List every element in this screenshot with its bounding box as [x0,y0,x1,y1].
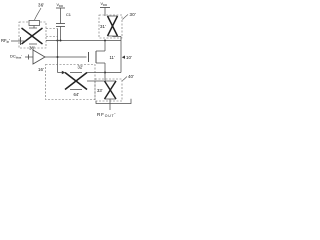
svg-text:40': 40' [128,74,134,79]
svg-text:32': 32' [78,65,84,70]
svg-text:33': 33' [97,88,103,93]
svg-text:RFOUT': RFOUT' [97,112,116,118]
svg-text:C1: C1 [66,12,71,17]
svg-text:10': 10' [126,55,132,60]
svg-text:64': 64' [74,92,80,97]
svg-text:31': 31' [100,24,106,29]
svg-text:16': 16' [38,67,44,72]
svg-text:RFin': RFin' [1,38,10,44]
svg-text:36': 36' [38,3,44,8]
svg-text:38': 38' [29,46,35,51]
svg-text:VDD: VDD [57,3,64,8]
svg-text:11': 11' [110,55,115,60]
svg-text:30': 30' [130,12,137,17]
svg-text:VDD: VDD [101,2,108,7]
svg-text:DCbias': DCbias' [10,54,22,60]
